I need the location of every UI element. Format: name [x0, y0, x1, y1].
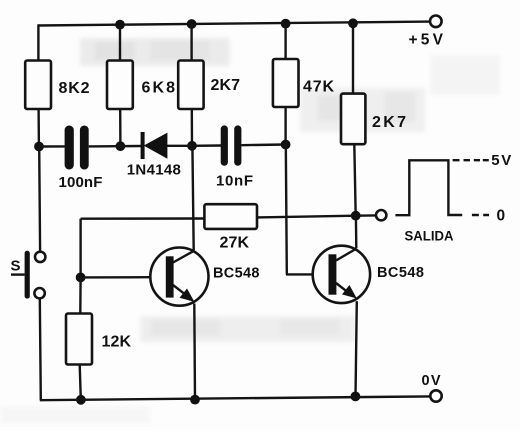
svg-text:8K2: 8K2 [59, 80, 90, 97]
node A junction dot [34, 142, 44, 152]
node top rail dot 2K7 [187, 19, 197, 29]
resistor 12K [66, 314, 92, 365]
wire node E to output terminal [356, 214, 376, 217]
node G junction dot bottom of 12K [76, 395, 86, 405]
wire 10nF to node D [241, 143, 285, 146]
diode D1 1N4148 [141, 132, 167, 159]
waveform dashed 0 level [472, 214, 489, 216]
svg-text:0V: 0V [422, 373, 441, 389]
wire 2K7 to node C [191, 109, 194, 146]
wire node E to Q2 collector [355, 216, 358, 249]
svg-text:12K: 12K [102, 334, 132, 351]
wire 27K left leg down to node F [79, 219, 81, 278]
svg-text:2K7: 2K7 [372, 114, 406, 131]
svg-text:1N4148: 1N4148 [127, 162, 181, 179]
node F junction dot [76, 273, 86, 283]
waveform dashed 5V level [453, 159, 489, 161]
capacitor C1 100nF [65, 126, 89, 170]
resistor 6K8 [107, 61, 133, 110]
wire rail to 2K7 [190, 24, 192, 61]
wire node F to Q1 base [81, 276, 151, 279]
svg-text:27K: 27K [220, 235, 250, 252]
node C junction dot [187, 141, 197, 151]
resistor 2K7 second [341, 94, 365, 145]
svg-text:5V: 5V [491, 152, 511, 169]
wire 47K to node D [284, 107, 286, 145]
wire node C to 10nF [192, 144, 221, 147]
wire node B to diode [120, 145, 141, 148]
node top rail dot 2K7b [348, 18, 358, 28]
waveform pulse output [395, 160, 462, 215]
wire 100nF to node B [89, 145, 121, 148]
svg-text:10nF: 10nF [216, 173, 253, 190]
0V terminal circle [430, 390, 441, 401]
node top rail dot 47K [281, 19, 291, 29]
node B junction dot [116, 141, 126, 151]
node I junction dot Q2 emitter at rail [351, 392, 361, 402]
transistor Q2 BC548 [313, 246, 370, 303]
wire node C down to Q1 collector [192, 146, 193, 251]
wire rail to 6K8 [119, 25, 121, 61]
wire 12K to bottom rail [80, 365, 81, 400]
svg-text:2K7: 2K7 [211, 77, 241, 94]
wire node A to 100nF [39, 145, 65, 148]
wire rail to 2K7 second [352, 23, 354, 93]
wire 2K7 second down to node E [354, 144, 355, 216]
wire diode to node C [167, 145, 192, 147]
node H junction dot Q1 emitter at rail [190, 395, 200, 405]
node top rail dot 6K8 [115, 20, 125, 30]
svg-text:BC548: BC548 [213, 266, 260, 282]
svg-text:6K8: 6K8 [142, 80, 176, 97]
wire node F down to 12K [79, 277, 82, 313]
svg-text:100nF: 100nF [59, 174, 103, 191]
node E junction dot [351, 211, 361, 221]
capacitor C2 10nF [221, 125, 242, 165]
switch S [11, 251, 45, 299]
wire node F to 27K [81, 217, 205, 220]
resistor R 27K horizontal [204, 204, 257, 229]
wire node D down to Q2 base [286, 145, 313, 275]
wire 27K to node E [257, 216, 356, 218]
wire rail to 47K [284, 24, 286, 59]
wire Q2 emitter to bottom rail [356, 301, 357, 396]
svg-text:+5V: +5V [409, 32, 444, 49]
wire switch bottom to rail corner [40, 299, 41, 401]
svg-text:SALIDA: SALIDA [405, 228, 454, 244]
svg-text:S: S [11, 258, 21, 275]
wire top +5V rail [38, 22, 430, 26]
wire bottom 0V rail [40, 396, 430, 400]
wire 6K8 to node B [119, 109, 122, 146]
output terminal circle SALIDA [376, 210, 386, 220]
wire node A down to switch top [38, 147, 41, 252]
+5V terminal circle [430, 15, 442, 27]
transistor Q1 BC548 [150, 248, 208, 306]
svg-text:BC548: BC548 [377, 265, 424, 281]
resistor 47K [273, 59, 299, 107]
wire left drop to R 8K2 [37, 24, 39, 60]
svg-text:47K: 47K [303, 79, 334, 96]
resistor 2K7 first [178, 61, 203, 110]
svg-text:0: 0 [497, 208, 506, 225]
wire 8K2 to node A [37, 109, 40, 147]
node D junction dot [281, 140, 291, 150]
wire Q1 emitter to bottom rail [193, 304, 196, 400]
resistor 8K2 [25, 61, 51, 110]
